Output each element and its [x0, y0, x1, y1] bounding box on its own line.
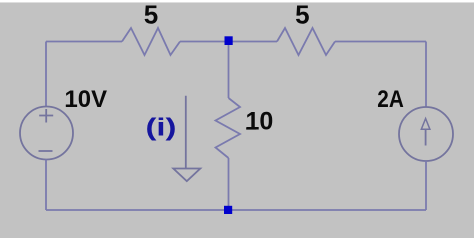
current reference arrow (i) shaft	[185, 96, 187, 169]
svg-text:5: 5	[144, 0, 158, 30]
wire: middle branch lower (R3 down to node B)	[228, 158, 230, 210]
svg-text:10V: 10V	[65, 86, 108, 113]
voltage source V1 (10V) circle	[20, 107, 73, 160]
resistor R2 (5 ohm, top-right zigzag)	[277, 28, 335, 55]
V1 minus sign	[39, 150, 53, 152]
resistor R1 (5 ohm, top-left zigzag)	[122, 28, 180, 55]
wire: right rail upper (top-right corner to I1 top)	[425, 42, 427, 108]
node A (top junction square)	[225, 36, 233, 45]
wire: left rail upper (corner down to V1 top)	[45, 42, 47, 108]
wire: top rail middle segment (R1 to node A to R2)	[180, 41, 277, 43]
svg-text:10: 10	[246, 108, 274, 136]
resistor R3 (10 ohm, vertical zigzag)	[216, 98, 241, 158]
wire: middle branch upper (node A down to R3)	[228, 42, 230, 99]
wire: bottom rail	[46, 209, 426, 211]
current source I1 (2A) circle	[399, 107, 453, 161]
wire: top rail right segment (R2 to top-right corner)	[335, 41, 426, 43]
V1 plus sign	[39, 109, 53, 123]
svg-text:5: 5	[295, 0, 309, 30]
svg-text:(i): (i)	[146, 114, 177, 142]
wire: top rail left segment (V1 top corner to R1)	[46, 41, 122, 43]
svg-text:2A: 2A	[377, 86, 404, 113]
I1 arrow head (hollow, pointing up)	[421, 119, 430, 130]
current reference arrow (i) head (hollow, pointing down)	[173, 169, 200, 182]
I1 arrow shaft	[425, 129, 427, 145]
label: 10V foot of digit 1	[66, 105, 76, 107]
node B (bottom junction square)	[224, 206, 232, 214]
wire: right rail lower (I1 bottom to bottom-right corner)	[425, 161, 427, 210]
label: 10 foot of digit 1	[246, 127, 256, 129]
wire: left rail lower (V1 bottom to bottom-left corner)	[45, 160, 47, 211]
